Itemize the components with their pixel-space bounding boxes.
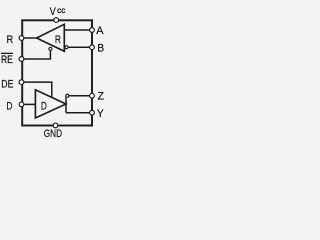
pin DE (19, 80, 24, 85)
pin R (19, 36, 24, 41)
svg-text:RE: RE (1, 54, 13, 66)
svg-text:CC: CC (57, 9, 66, 15)
svg-text:D: D (41, 101, 47, 113)
svg-text:B: B (97, 42, 104, 54)
wire DE to driver enable (22, 82, 52, 98)
svg-text:R: R (7, 34, 14, 46)
svg-text:Y: Y (97, 108, 104, 120)
svg-text:DE: DE (1, 79, 13, 91)
pin A (90, 28, 95, 33)
wire D pin to driver input (22, 103, 35, 105)
bubble on receiver B input (65, 46, 68, 49)
bubble on receiver enable RE (49, 47, 52, 50)
bubble on driver Z output (66, 94, 69, 97)
pin Y (90, 110, 95, 115)
svg-text:D: D (6, 101, 12, 113)
receiver amp R (triangle pointing left) (37, 24, 65, 51)
pin GND (53, 123, 58, 128)
pin Z (90, 93, 95, 98)
pin B (90, 45, 95, 50)
wire R pin to receiver output (22, 37, 37, 39)
wire Z pin from driver inverting output (69, 95, 92, 97)
wire A pin to receiver input (64, 29, 92, 31)
pin D (19, 102, 24, 107)
svg-text:V: V (50, 6, 57, 18)
pin VCC (54, 18, 59, 23)
wire RE to receiver enable (22, 50, 50, 59)
pin RE (19, 57, 24, 62)
driver amp D (triangle pointing right) (35, 90, 66, 118)
svg-text:R: R (55, 34, 61, 46)
background (0, 0, 105, 142)
wire Y pin from driver output (66, 112, 92, 114)
svg-text:GND: GND (44, 128, 62, 140)
svg-text:Z: Z (98, 91, 105, 103)
IC package outline U1 (22, 20, 92, 125)
wire driver output vertical bus (65, 97, 67, 112)
svg-text:A: A (96, 25, 104, 37)
wire B pin to receiver inverting input (68, 46, 92, 48)
